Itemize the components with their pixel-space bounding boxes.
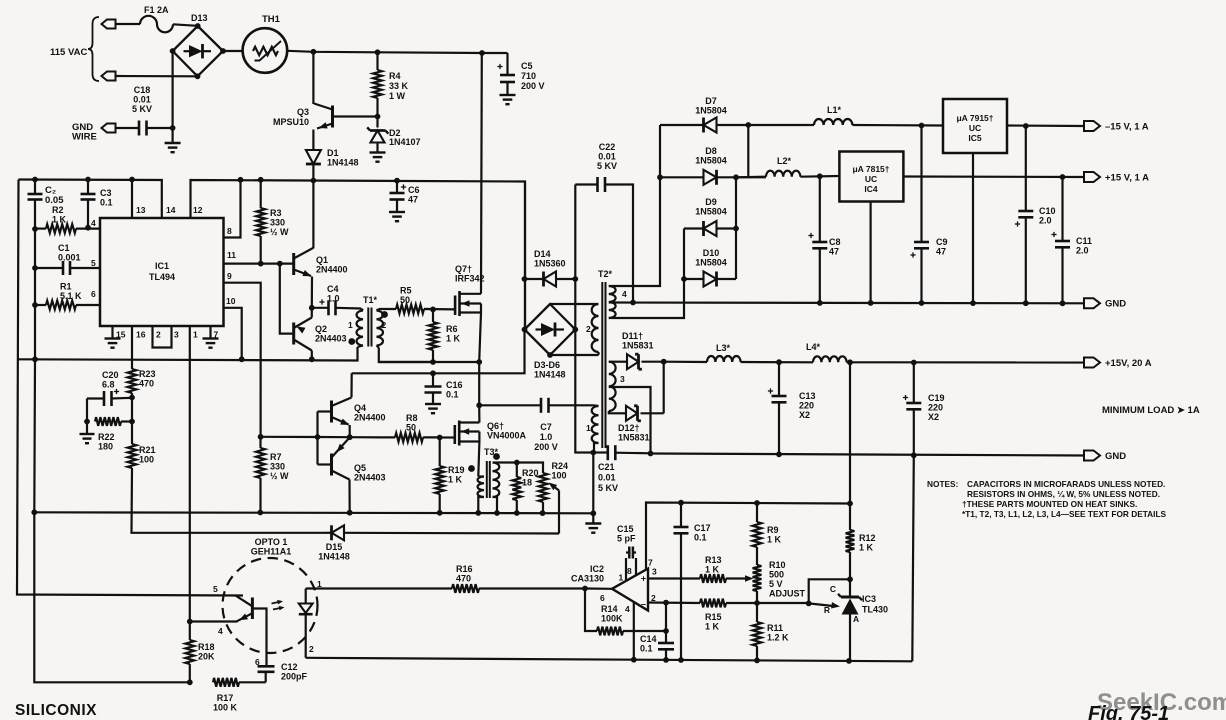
svg-text:1N5831: 1N5831 bbox=[622, 341, 654, 351]
wire C17 column bbox=[680, 503, 682, 527]
wire C9 column bbox=[920, 126, 922, 243]
wire ic2 pin4 bbox=[633, 603, 635, 660]
inductor L4 bbox=[813, 356, 847, 362]
junction C10 gnd bbox=[1023, 300, 1029, 306]
resistor R2 bbox=[35, 224, 100, 233]
svg-text:2N4403: 2N4403 bbox=[315, 334, 347, 344]
ground below R22 bbox=[80, 434, 95, 443]
junction R4 D2 Q3 base bbox=[375, 114, 381, 120]
svg-text:5 KV: 5 KV bbox=[132, 104, 152, 114]
label R15 1K bbox=[705, 612, 722, 632]
wire Q2 base column bbox=[280, 264, 294, 334]
junction R18 bottom bbox=[187, 679, 193, 685]
wire Q4Q5 base bracket2 bbox=[318, 463, 332, 465]
diode D8 bbox=[660, 170, 766, 185]
svg-text:0.01: 0.01 bbox=[598, 152, 616, 162]
svg-text:5 KV: 5 KV bbox=[598, 483, 618, 493]
wire C7 row left bbox=[479, 404, 541, 406]
label Q4 2N4400 bbox=[354, 403, 386, 423]
svg-text:47: 47 bbox=[408, 195, 418, 205]
junction bus D1 bbox=[311, 178, 317, 184]
svg-text:F1 2A: F1 2A bbox=[144, 5, 169, 15]
wire C5 to ground bbox=[506, 82, 508, 95]
svg-text:330: 330 bbox=[270, 462, 285, 472]
wire Q1 emitter bbox=[311, 277, 313, 308]
svg-text:470: 470 bbox=[456, 574, 471, 584]
svg-text:6.8: 6.8 bbox=[102, 380, 115, 390]
svg-text:100: 100 bbox=[139, 455, 154, 465]
junction minus R14 bbox=[663, 600, 669, 606]
label pin6 bbox=[91, 289, 96, 299]
svg-text:R13: R13 bbox=[705, 555, 722, 565]
junction R12 TL430 bbox=[847, 576, 853, 582]
wire C16 gnd lead bbox=[432, 393, 434, 405]
wire C22 left lead bbox=[575, 183, 597, 185]
transformer T2 winding 1 bbox=[592, 405, 599, 452]
wire Q5 collector down bbox=[348, 480, 350, 513]
wire pin15 stub bbox=[111, 326, 113, 339]
label pin13 bbox=[136, 205, 146, 215]
wire Q2 collector down bbox=[311, 351, 313, 360]
svg-text:+: + bbox=[641, 574, 646, 584]
wire Q6 source down bbox=[478, 442, 479, 477]
svg-text:X2: X2 bbox=[928, 412, 939, 422]
junction bus512 R19 bbox=[437, 510, 443, 516]
junction rail IC3 bbox=[846, 658, 852, 664]
label C14 0.1 bbox=[640, 634, 657, 654]
label Q5 2N4403 bbox=[354, 463, 386, 483]
transistor Q6 MOSFET bbox=[455, 421, 480, 446]
wire D7 junction vertical bbox=[747, 125, 749, 177]
notes text block bbox=[927, 479, 1167, 519]
wire D9-D10 right vertical bbox=[735, 177, 737, 279]
ground pin7 bbox=[203, 339, 219, 348]
wire IC5 gnd lead bbox=[972, 153, 974, 303]
wire Q4Q5 base bracket bbox=[318, 410, 332, 412]
label pin7 bbox=[214, 330, 219, 340]
svg-text:TL494: TL494 bbox=[149, 272, 175, 282]
svg-text:47: 47 bbox=[936, 247, 946, 257]
junction IC4 gnd bbox=[868, 300, 874, 306]
svg-text:R14: R14 bbox=[601, 604, 618, 614]
wire TH1 to C5 corner bbox=[287, 51, 507, 53]
label IC1 TL494 bbox=[149, 261, 175, 282]
svg-text:IC2: IC2 bbox=[590, 564, 604, 574]
svg-text:CAPACITORS IN MICROFARADS UNLE: CAPACITORS IN MICROFARADS UNLESS NOTED. bbox=[967, 479, 1165, 489]
label R20 18 bbox=[522, 468, 539, 488]
label T3 bbox=[484, 447, 499, 457]
IC5 7915 box bbox=[943, 99, 1007, 153]
label C3 0.1 bbox=[100, 188, 113, 208]
svg-text:D15: D15 bbox=[326, 542, 343, 552]
label C16 0.1 bbox=[446, 380, 463, 400]
junction C9 gnd bbox=[919, 300, 925, 306]
label TL430 R bbox=[824, 605, 830, 615]
svg-text:7: 7 bbox=[214, 330, 219, 340]
label pin1 bbox=[193, 330, 198, 340]
label TH1 bbox=[262, 14, 281, 25]
wire C17 bottom bbox=[680, 533, 682, 660]
transistor Q5 2N4403 bbox=[332, 437, 350, 479]
label pin5 bbox=[91, 258, 96, 268]
label opto pin1 bbox=[317, 579, 322, 589]
junction bus512 R24 bbox=[540, 510, 546, 516]
svg-text:R23: R23 bbox=[139, 369, 156, 379]
IC4 7815 box bbox=[839, 152, 903, 202]
label opto pin5 bbox=[213, 584, 218, 594]
junction R12 top bbox=[847, 359, 853, 365]
capacitor C13 bbox=[768, 388, 787, 402]
svg-text:C10: C10 bbox=[1039, 206, 1056, 216]
svg-text:4: 4 bbox=[622, 289, 627, 299]
label C19 220 X2 bbox=[928, 393, 945, 422]
svg-text:μA 7915†: μA 7915† bbox=[956, 113, 993, 123]
wire C6 lead bbox=[396, 181, 398, 193]
svg-text:X2: X2 bbox=[799, 410, 810, 420]
label opto pin4 bbox=[218, 626, 223, 636]
transformer T1 bbox=[348, 308, 388, 348]
svg-text:10: 10 bbox=[226, 296, 236, 306]
label ic2 pin1 bbox=[619, 573, 624, 583]
svg-text:9: 9 bbox=[227, 271, 232, 281]
svg-text:UC: UC bbox=[969, 123, 981, 133]
wire C4 left lead bbox=[312, 307, 329, 309]
svg-text:R: R bbox=[824, 605, 830, 615]
resistor R16 bbox=[452, 584, 585, 593]
svg-text:D9: D9 bbox=[705, 197, 717, 207]
bridge rectifier D3-D6 bbox=[522, 304, 579, 358]
wire opto pin4 bbox=[190, 620, 238, 622]
label R5 50 bbox=[400, 286, 412, 306]
junction C8 gnd bbox=[817, 300, 823, 306]
ground pin15 bbox=[105, 339, 121, 348]
svg-text:33 K: 33 K bbox=[389, 81, 409, 91]
resistor R17 bbox=[213, 678, 266, 687]
wire bridge top to T2 w2 top bbox=[550, 303, 599, 305]
capacitor C7 bbox=[541, 398, 549, 413]
wire C13 column bbox=[778, 362, 780, 396]
svg-text:5 V: 5 V bbox=[769, 579, 783, 589]
svg-text:R6: R6 bbox=[446, 324, 458, 334]
svg-text:6: 6 bbox=[600, 593, 605, 603]
svg-text:100 K: 100 K bbox=[213, 703, 238, 713]
junction C5 bbox=[479, 50, 485, 56]
wire C11 bottom bbox=[1061, 247, 1063, 303]
junction C22 tap bbox=[630, 300, 636, 306]
svg-text:+15V, 20 A: +15V, 20 A bbox=[1105, 358, 1152, 369]
svg-text:1N5804: 1N5804 bbox=[695, 207, 727, 217]
wire x35 column bbox=[34, 200, 188, 683]
junction IC5 gnd bbox=[970, 300, 976, 306]
label D3-D6 1N4148 bbox=[534, 360, 566, 380]
label pin2 bbox=[156, 330, 161, 340]
svg-text:1: 1 bbox=[586, 423, 591, 433]
svg-text:C20: C20 bbox=[102, 370, 119, 380]
input brace bbox=[88, 17, 99, 81]
wire D1 to bus bbox=[312, 164, 314, 181]
svg-text:470: 470 bbox=[139, 379, 154, 389]
svg-text:L4*: L4* bbox=[806, 342, 821, 352]
capacitor C10 bbox=[1015, 211, 1033, 227]
svg-text:R7: R7 bbox=[270, 452, 282, 462]
wire pin7 rail bbox=[646, 503, 850, 570]
junction opamp out bbox=[582, 586, 588, 592]
label R1 5.1K bbox=[60, 282, 82, 302]
wire C21 right bbox=[615, 452, 650, 455]
diode D1 bbox=[306, 150, 321, 164]
junction R10 R15 bbox=[754, 600, 760, 606]
junction C4 node bbox=[309, 305, 315, 311]
junction bus512 Q5 bbox=[347, 510, 353, 516]
label T2 pin4 bbox=[622, 289, 627, 299]
wire C18 to junction bbox=[147, 127, 173, 129]
label C18 0.01 5KV bbox=[132, 85, 152, 114]
svg-text:0.001: 0.001 bbox=[58, 253, 81, 263]
resistor R7 bbox=[256, 437, 265, 513]
svg-text:1: 1 bbox=[193, 330, 198, 340]
label Q3 MPSU10 bbox=[273, 107, 309, 127]
wire T1 right bottom bbox=[379, 348, 433, 363]
svg-text:0.01: 0.01 bbox=[598, 473, 616, 483]
junction bus512 T3R bbox=[494, 510, 500, 516]
resistor R13 bbox=[700, 574, 746, 583]
svg-text:8: 8 bbox=[227, 226, 232, 236]
svg-text:4: 4 bbox=[218, 626, 223, 636]
svg-text:R16: R16 bbox=[456, 564, 473, 574]
label R19 1K bbox=[448, 465, 465, 485]
wire C9 bottom bbox=[920, 248, 922, 303]
junction C13 top bbox=[776, 359, 782, 365]
label pin16 bbox=[136, 330, 146, 340]
wire 373 rail bbox=[352, 330, 525, 374]
opto light arrows bbox=[272, 600, 285, 611]
label OPTO1 GEH11A1 bbox=[251, 537, 292, 557]
label T2 pin1 bbox=[586, 423, 591, 433]
svg-text:D14: D14 bbox=[534, 249, 551, 259]
svg-text:R21: R21 bbox=[139, 445, 156, 455]
wire bus 512 bbox=[34, 512, 593, 513]
label C21 0.01 5KV bbox=[598, 462, 618, 493]
wire w4 top to D7 node bbox=[613, 125, 661, 286]
wire primary gnd lead bbox=[592, 513, 594, 523]
svg-text:0.1: 0.1 bbox=[446, 390, 459, 400]
capacitor C22 bbox=[598, 177, 606, 192]
ground primary bbox=[585, 524, 601, 533]
wire pin16 stub bbox=[131, 326, 133, 369]
svg-text:R5: R5 bbox=[400, 286, 412, 296]
junction TH1 Q3 bbox=[311, 49, 317, 55]
transistor Q2 2N4403 bbox=[294, 318, 312, 351]
svg-text:TL430: TL430 bbox=[862, 605, 888, 615]
wire C5 lead bbox=[506, 53, 508, 75]
svg-text:C14: C14 bbox=[640, 634, 657, 644]
svg-text:CA3130: CA3130 bbox=[571, 574, 604, 584]
wire Q3 emitter to D1 bbox=[312, 130, 314, 151]
svg-text:220: 220 bbox=[799, 401, 814, 411]
label R13 1K bbox=[705, 555, 722, 575]
svg-text:IC3: IC3 bbox=[862, 594, 876, 604]
optocoupler OPTO1 circle bbox=[223, 558, 318, 653]
svg-text:16: 16 bbox=[136, 330, 146, 340]
capacitor C9 bbox=[910, 242, 929, 258]
junction C18 right bbox=[170, 125, 176, 131]
label pin3 bbox=[174, 330, 179, 340]
wire C14 column bbox=[665, 603, 667, 643]
voltage reference IC3 TL430 bbox=[809, 579, 862, 661]
svg-text:D11†: D11† bbox=[622, 331, 643, 341]
label D14 1N5360 bbox=[534, 249, 566, 269]
label TL430 A bbox=[853, 614, 859, 624]
svg-text:15: 15 bbox=[116, 330, 126, 340]
capacitor C8 bbox=[808, 233, 827, 248]
svg-text:UC: UC bbox=[865, 174, 877, 184]
label C12 200pF bbox=[281, 662, 308, 682]
wire C22 right to tap bbox=[605, 185, 633, 303]
svg-text:5: 5 bbox=[91, 258, 96, 268]
junction bus pin8 bbox=[238, 177, 244, 183]
svg-text:C22: C22 bbox=[599, 142, 616, 152]
junction pin11 R3 bbox=[258, 261, 264, 267]
terminal AC line bottom bbox=[102, 72, 116, 81]
svg-text:50: 50 bbox=[400, 295, 410, 305]
label T2 pin3 bbox=[620, 374, 625, 384]
wire L1 to IC5 bbox=[852, 124, 943, 127]
svg-text:1 K: 1 K bbox=[859, 543, 874, 553]
junction rail C17 bbox=[678, 657, 684, 663]
wire R input jog bbox=[809, 579, 850, 603]
wire C20 right bbox=[112, 397, 133, 400]
inductor L3 bbox=[707, 356, 741, 362]
junction R20 top bbox=[514, 460, 520, 466]
svg-text:GND: GND bbox=[1105, 299, 1126, 310]
label C13 220 X2 bbox=[799, 391, 816, 420]
svg-text:1N5360: 1N5360 bbox=[534, 259, 566, 269]
wire IC5 out bbox=[1007, 124, 1084, 127]
svg-text:NOTES:: NOTES: bbox=[927, 479, 958, 489]
label C1 0.001 bbox=[58, 243, 81, 263]
wire C2 top lead bbox=[34, 180, 36, 195]
wire gnd terminal to C18 bbox=[116, 127, 140, 129]
IC U1 TL494 box bbox=[100, 218, 224, 326]
junction D9 right bbox=[733, 226, 739, 232]
label L1 bbox=[827, 105, 842, 115]
label R14 100K bbox=[601, 604, 623, 624]
wire gate lead bbox=[440, 436, 455, 438]
transformer T3 bbox=[468, 453, 500, 513]
resistor R12 bbox=[846, 530, 855, 579]
resistor R10 bbox=[753, 565, 762, 622]
svg-text:D12†: D12† bbox=[618, 423, 640, 433]
label Q6 VN4000A bbox=[487, 421, 527, 441]
wire AC bottom to bridge bbox=[116, 75, 198, 78]
wire primary gnd column bbox=[592, 453, 594, 514]
junction C11 top bbox=[1060, 174, 1066, 180]
wiper arrow R10 bbox=[745, 575, 754, 582]
svg-text:R1: R1 bbox=[60, 282, 72, 292]
label R10 500 5V ADJUST bbox=[769, 560, 806, 599]
wire R12 column top bbox=[849, 362, 851, 530]
label TL430 C bbox=[830, 584, 836, 594]
diode D9 bbox=[684, 221, 736, 236]
label T2 pin2 bbox=[586, 324, 591, 334]
wire C8 bottom bbox=[819, 248, 821, 303]
junction R14 C14 bbox=[663, 628, 669, 634]
label SILICONIX bbox=[15, 702, 97, 719]
svg-text:2N4403: 2N4403 bbox=[354, 473, 386, 483]
wire pin11 stub bbox=[224, 263, 294, 265]
junction C10 top bbox=[1023, 123, 1029, 129]
svg-text:2: 2 bbox=[156, 330, 161, 340]
svg-text:1 K: 1 K bbox=[767, 535, 782, 545]
wire snubber left vertical bbox=[524, 182, 526, 330]
label D2 1N4107 bbox=[389, 128, 421, 147]
label L2 bbox=[777, 156, 792, 166]
junction pin11 Q2base bbox=[277, 261, 283, 267]
label D9 1N5804 bbox=[695, 197, 727, 217]
capacitor C21 bbox=[608, 445, 616, 460]
capacitor C20 bbox=[104, 389, 119, 406]
wire Q2 emitter up bbox=[311, 308, 313, 318]
svg-text:R18: R18 bbox=[198, 642, 215, 652]
junction Q2 bus360 bbox=[309, 356, 315, 362]
label R6 1K bbox=[446, 324, 461, 344]
ground below C6 bbox=[389, 212, 405, 221]
svg-text:R3: R3 bbox=[270, 208, 282, 218]
wire R22 gnd lead bbox=[86, 422, 88, 435]
svg-text:1N4148: 1N4148 bbox=[327, 158, 359, 168]
label pin10 bbox=[226, 296, 236, 306]
svg-text:GND: GND bbox=[1105, 451, 1126, 462]
junction rail502 R12 bbox=[847, 501, 853, 507]
wire L3 to L4 bbox=[741, 361, 813, 363]
label MINIMUM LOAD bbox=[1102, 405, 1200, 416]
transformer T2 core bbox=[602, 282, 605, 448]
svg-text:GEH11A1: GEH11A1 bbox=[251, 547, 292, 557]
wire C3 top lead bbox=[87, 180, 89, 195]
wire op rail right leg bbox=[912, 455, 914, 661]
svg-text:2: 2 bbox=[382, 320, 387, 330]
svg-text:4: 4 bbox=[625, 604, 630, 614]
svg-text:Q1: Q1 bbox=[316, 255, 328, 265]
svg-text:Q7†: Q7† bbox=[455, 264, 472, 274]
capacitor C18 bbox=[139, 121, 147, 136]
ground below C16 bbox=[425, 404, 441, 413]
junction bus R3 bbox=[258, 177, 264, 183]
label opto pin6 bbox=[255, 657, 260, 667]
label L3 bbox=[716, 343, 731, 353]
label pin8 bbox=[227, 226, 232, 236]
capacitor C11 bbox=[1051, 232, 1070, 247]
diode D7 bbox=[660, 118, 748, 133]
junction bus pin13 bbox=[129, 177, 135, 183]
label D7 1N5804 bbox=[695, 96, 727, 116]
wire C10 column bbox=[1025, 126, 1027, 211]
svg-text:1 K: 1 K bbox=[705, 622, 720, 632]
svg-text:WIRE: WIRE bbox=[72, 132, 97, 143]
svg-text:1N4107: 1N4107 bbox=[389, 137, 421, 147]
svg-text:R10: R10 bbox=[769, 560, 786, 570]
wire opto pin2 rail bbox=[306, 658, 913, 662]
junction R23 C20 bbox=[129, 395, 135, 401]
capacitor C19 bbox=[903, 395, 921, 409]
capacitor C16 bbox=[425, 387, 442, 393]
junction C9 top bbox=[919, 123, 925, 129]
label D13 bbox=[191, 13, 208, 23]
wire pin1 long vertical bbox=[189, 326, 191, 622]
svg-text:½ W: ½ W bbox=[270, 227, 289, 237]
svg-text:1 W: 1 W bbox=[389, 91, 406, 101]
label T1 bbox=[363, 295, 378, 305]
